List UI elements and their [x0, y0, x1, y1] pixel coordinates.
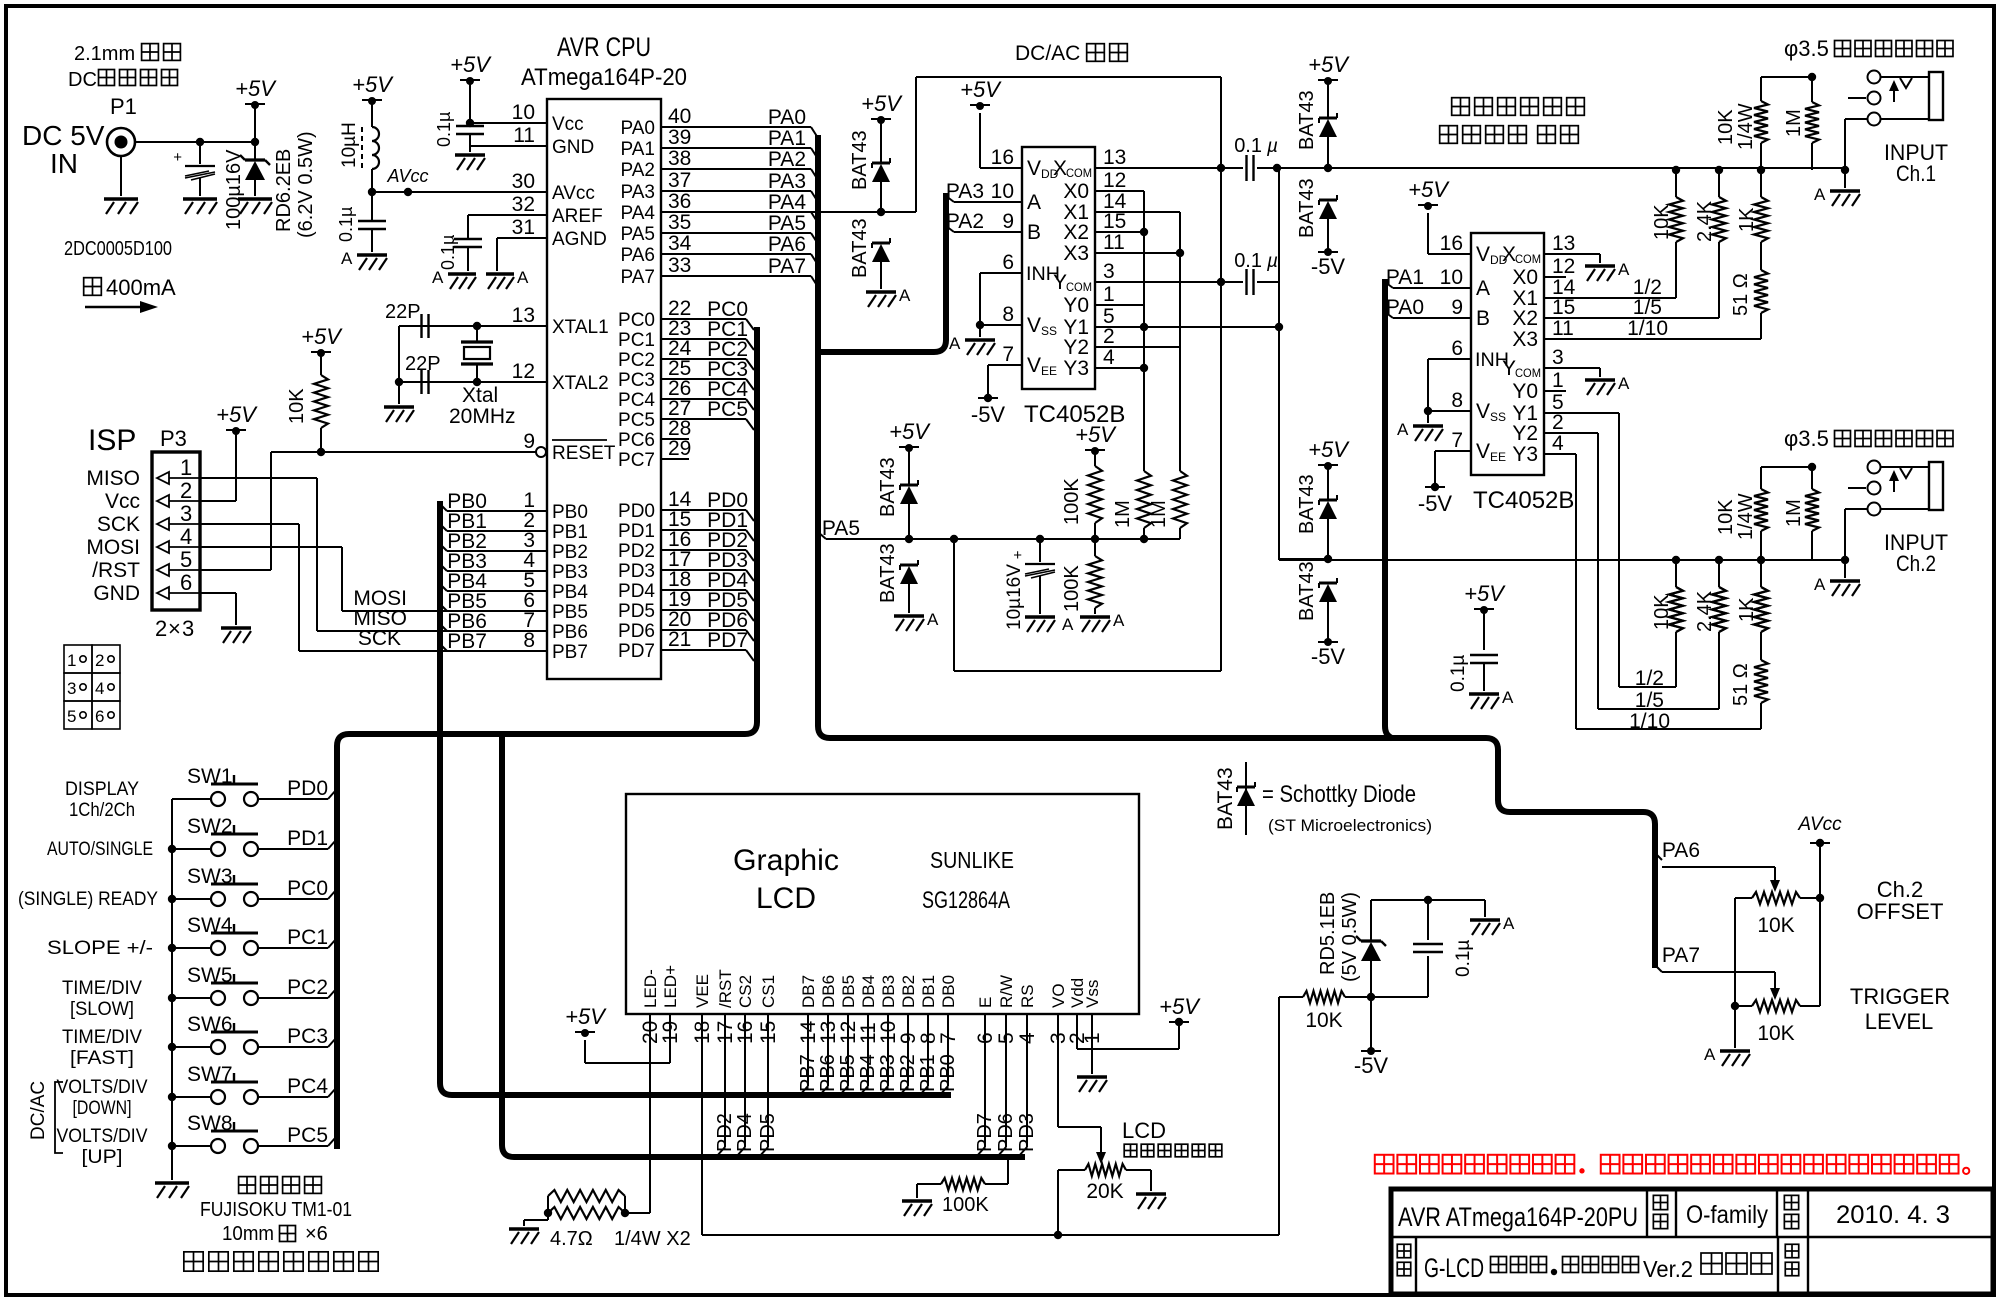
svg-text:0.1: 0.1 [1234, 250, 1262, 272]
svg-text:Vcc: Vcc [552, 114, 584, 135]
svg-text:DB4: DB4 [859, 975, 878, 1008]
svg-text:PC2: PC2 [618, 350, 655, 371]
svg-text:1M: 1M [1112, 500, 1134, 528]
svg-text:BAT43: BAT43 [849, 218, 871, 278]
svg-text:/RST: /RST [92, 559, 140, 582]
svg-text:10: 10 [1440, 266, 1463, 289]
svg-text:+5V: +5V [235, 76, 277, 101]
svg-text:13: 13 [1103, 146, 1126, 169]
svg-text:PC3: PC3 [287, 1025, 328, 1048]
svg-text:2DC0005D100: 2DC0005D100 [64, 238, 172, 260]
svg-text:+: + [1013, 547, 1022, 564]
svg-text:Y0: Y0 [1512, 380, 1538, 403]
svg-text:COM: COM [1066, 166, 1092, 180]
svg-text:TRIGGER: TRIGGER [1850, 984, 1950, 1009]
svg-text:A: A [517, 268, 529, 287]
svg-text:A: A [341, 249, 353, 268]
svg-text:X3: X3 [1512, 328, 1538, 351]
svg-text:X0: X0 [1063, 180, 1089, 203]
svg-text:PD0: PD0 [287, 777, 328, 800]
svg-text:MOSI: MOSI [353, 587, 407, 610]
svg-text:10mm: 10mm [222, 1223, 274, 1245]
svg-text:LED+: LED+ [661, 965, 680, 1008]
svg-text:-5V: -5V [1311, 644, 1346, 669]
svg-text:X2: X2 [1512, 307, 1538, 330]
svg-text:21: 21 [668, 628, 691, 651]
svg-text:PD6: PD6 [995, 1113, 1017, 1152]
svg-text:PA3: PA3 [620, 182, 655, 203]
svg-text:10K: 10K [1651, 204, 1673, 240]
svg-text:Vcc: Vcc [105, 490, 140, 513]
svg-text:V: V [1027, 314, 1041, 337]
svg-text:Y2: Y2 [1063, 336, 1089, 359]
svg-text:RS: RS [1018, 984, 1037, 1008]
svg-text:DC 5V: DC 5V [22, 120, 105, 151]
svg-text:GND: GND [93, 582, 140, 605]
svg-text:29: 29 [668, 437, 691, 460]
svg-text:DB3: DB3 [879, 975, 898, 1008]
svg-text:AVcc: AVcc [386, 166, 428, 186]
svg-text:2: 2 [95, 651, 104, 670]
svg-text:PA3: PA3 [946, 180, 984, 203]
svg-text:TIME/DIV: TIME/DIV [62, 978, 142, 999]
svg-text:6: 6 [1002, 251, 1014, 274]
svg-text:DC: DC [68, 69, 97, 91]
svg-text:PA2: PA2 [768, 148, 806, 171]
svg-text:PA5: PA5 [822, 517, 860, 540]
svg-text:13: 13 [512, 304, 535, 327]
svg-text:µ: µ [1266, 251, 1278, 272]
svg-text:V: V [1476, 400, 1490, 423]
svg-text:A: A [1062, 615, 1074, 634]
svg-text:(SINGLE) READY: (SINGLE) READY [18, 889, 158, 910]
svg-text:DB6: DB6 [819, 975, 838, 1008]
svg-text:COM: COM [1515, 366, 1541, 380]
svg-text:µ: µ [1266, 136, 1278, 157]
svg-text:22P: 22P [405, 353, 441, 375]
svg-text:6: 6 [180, 570, 192, 595]
svg-text:(6.2V 0.5W): (6.2V 0.5W) [295, 131, 317, 238]
svg-text:TC4052B: TC4052B [1473, 487, 1574, 514]
svg-text:TIME/DIV: TIME/DIV [62, 1027, 142, 1048]
svg-text:3: 3 [1552, 346, 1564, 369]
svg-text:10µH: 10µH [339, 122, 360, 168]
svg-text:DB2: DB2 [899, 975, 918, 1008]
svg-text:+5V: +5V [565, 1004, 607, 1029]
svg-text:+5V: +5V [1464, 581, 1506, 606]
svg-text:PB4: PB4 [552, 582, 588, 603]
svg-text:PD0: PD0 [618, 501, 655, 522]
svg-text:30: 30 [512, 170, 535, 193]
svg-text:PB2: PB2 [552, 542, 588, 563]
svg-text:PA2: PA2 [620, 160, 655, 181]
svg-text:4: 4 [1552, 432, 1564, 455]
svg-text:1/2: 1/2 [1635, 667, 1664, 690]
svg-text:2: 2 [180, 478, 192, 503]
svg-text:5: 5 [67, 707, 76, 726]
svg-text:12: 12 [1552, 255, 1575, 278]
svg-text:3: 3 [67, 679, 76, 698]
svg-text:φ3.5: φ3.5 [1784, 36, 1829, 61]
svg-text:+5V: +5V [450, 52, 492, 77]
svg-text:P1: P1 [110, 94, 137, 119]
svg-text:3: 3 [1103, 260, 1115, 283]
svg-text:PD1: PD1 [618, 521, 655, 542]
svg-text:BAT43: BAT43 [1214, 767, 1237, 830]
svg-text:AVR CPU: AVR CPU [557, 32, 651, 62]
svg-text:+5V: +5V [1159, 994, 1201, 1019]
svg-text:-5V: -5V [1311, 254, 1346, 279]
svg-text:PA6: PA6 [620, 245, 655, 266]
svg-text:A: A [1618, 374, 1630, 393]
svg-text:1/5: 1/5 [1635, 689, 1664, 712]
svg-text:10K: 10K [1757, 1022, 1794, 1045]
svg-text:PC5: PC5 [707, 398, 748, 421]
svg-text:AVcc: AVcc [1797, 814, 1842, 835]
svg-text:SS: SS [1490, 410, 1506, 424]
svg-text:PD3: PD3 [1016, 1113, 1038, 1152]
svg-text:SCK: SCK [358, 627, 401, 650]
svg-text:O-family: O-family [1686, 1201, 1768, 1229]
svg-text:32: 32 [512, 193, 535, 216]
svg-text:8: 8 [1002, 303, 1014, 326]
svg-text:A: A [899, 286, 911, 305]
svg-text:ATmega164P-20: ATmega164P-20 [521, 64, 687, 91]
svg-text:PC5: PC5 [618, 410, 655, 431]
svg-text:PA4: PA4 [620, 203, 655, 224]
svg-text:BAT43: BAT43 [1296, 561, 1318, 621]
svg-text:2: 2 [1103, 325, 1115, 348]
svg-text:DC/AC: DC/AC [1015, 42, 1080, 65]
svg-text:0.1µ: 0.1µ [434, 112, 454, 147]
svg-text:100µ16V: 100µ16V [223, 149, 245, 230]
svg-text:3: 3 [182, 616, 194, 641]
svg-text:IN: IN [50, 148, 78, 179]
svg-text:1: 1 [67, 651, 76, 670]
svg-text:PC3: PC3 [618, 370, 655, 391]
svg-text:RESET: RESET [552, 443, 616, 464]
svg-text:MISO: MISO [86, 467, 140, 490]
svg-text:E: E [976, 997, 995, 1008]
svg-text:(5V 0.5W): (5V 0.5W) [1339, 892, 1361, 982]
svg-text:+5V: +5V [1408, 177, 1450, 202]
svg-text:SG12864A: SG12864A [922, 887, 1010, 914]
svg-text:6: 6 [95, 707, 104, 726]
svg-text:[DOWN]: [DOWN] [73, 1098, 132, 1119]
svg-text:PD7: PD7 [618, 641, 655, 662]
svg-text:PA1: PA1 [620, 139, 655, 160]
svg-text:Xtal: Xtal [462, 384, 498, 407]
svg-text:11: 11 [1103, 231, 1125, 254]
svg-text:10: 10 [512, 101, 535, 124]
svg-text:39: 39 [668, 126, 691, 149]
svg-text:A: A [1113, 611, 1125, 630]
svg-text:PC4: PC4 [618, 390, 655, 411]
svg-text:Y: Y [1053, 271, 1067, 294]
svg-text:COM: COM [1066, 280, 1092, 294]
svg-text:BAT43: BAT43 [877, 543, 899, 603]
svg-text:12: 12 [512, 360, 535, 383]
svg-text:A: A [1704, 1045, 1716, 1064]
svg-text:PC4: PC4 [287, 1075, 328, 1098]
svg-text:+5V: +5V [960, 77, 1002, 102]
svg-text:AUTO/SINGLE: AUTO/SINGLE [47, 839, 153, 860]
svg-text:/RST: /RST [716, 969, 735, 1008]
svg-text:PC0: PC0 [618, 310, 655, 331]
svg-text:10K: 10K [1715, 109, 1737, 145]
svg-text:+5V: +5V [1308, 437, 1350, 462]
svg-text:EE: EE [1490, 450, 1506, 464]
svg-text:0.1µ: 0.1µ [1448, 655, 1469, 692]
svg-text:A: A [1476, 277, 1490, 300]
svg-text:10: 10 [991, 180, 1014, 203]
svg-text:V: V [1027, 354, 1041, 377]
svg-text:RD6.2EB: RD6.2EB [273, 149, 295, 232]
svg-text:CS2: CS2 [736, 975, 755, 1008]
svg-text:4: 4 [1103, 346, 1115, 369]
svg-text:Ch.2: Ch.2 [1896, 551, 1936, 576]
svg-text:10K: 10K [1757, 914, 1794, 937]
svg-text:33: 33 [668, 254, 691, 277]
svg-text:10µ16V: 10µ16V [1004, 564, 1025, 630]
svg-text:PB5: PB5 [837, 1054, 859, 1092]
svg-text:4: 4 [180, 524, 192, 549]
svg-text:1/5: 1/5 [1633, 296, 1662, 319]
svg-text:1/10: 1/10 [1629, 710, 1670, 733]
svg-text:PC6: PC6 [618, 430, 655, 451]
svg-text:4: 4 [95, 679, 104, 698]
svg-text:DB5: DB5 [839, 975, 858, 1008]
svg-text:Y0: Y0 [1063, 294, 1089, 317]
svg-text:31: 31 [512, 216, 535, 239]
svg-text:BAT43: BAT43 [1296, 178, 1318, 238]
svg-text:X: X [1502, 243, 1516, 266]
svg-text:1M: 1M [1783, 499, 1805, 527]
svg-text:100K: 100K [1061, 565, 1083, 612]
svg-text:2.1mm: 2.1mm [74, 43, 135, 65]
svg-text:1/4W: 1/4W [1735, 493, 1757, 540]
svg-text:COM: COM [1515, 252, 1541, 266]
svg-text:MOSI: MOSI [86, 536, 140, 559]
svg-text:Y3: Y3 [1063, 357, 1089, 380]
svg-text:A: A [1814, 575, 1826, 594]
svg-text:= Schottky Diode: = Schottky Diode [1262, 781, 1416, 808]
svg-text:1M: 1M [1148, 500, 1170, 528]
svg-text:R/W: R/W [997, 975, 1016, 1008]
svg-text:A: A [1502, 688, 1514, 707]
svg-text:EE: EE [1041, 364, 1057, 378]
svg-text:+5V: +5V [352, 72, 394, 97]
svg-text:AGND: AGND [552, 229, 607, 250]
svg-text:PC1: PC1 [287, 926, 328, 949]
svg-text:2: 2 [1552, 411, 1564, 434]
svg-text:VOLTS/DIV: VOLTS/DIV [57, 1077, 148, 1098]
svg-text:SCK: SCK [97, 513, 140, 536]
svg-text:G-LCD: G-LCD [1424, 1253, 1484, 1283]
svg-text:7: 7 [1451, 429, 1463, 452]
svg-text:PB5: PB5 [552, 602, 588, 623]
svg-text:GND: GND [552, 137, 594, 158]
svg-text:[FAST]: [FAST] [70, 1048, 134, 1069]
svg-text:BAT43: BAT43 [877, 457, 899, 517]
svg-text:PC1: PC1 [618, 330, 655, 351]
svg-text:11: 11 [513, 124, 535, 147]
svg-text:PA7: PA7 [768, 255, 806, 278]
svg-text:PD4: PD4 [618, 581, 655, 602]
svg-text:40: 40 [668, 105, 691, 128]
svg-text:37: 37 [668, 169, 691, 192]
svg-text:PB7: PB7 [552, 642, 588, 663]
svg-text:PD5: PD5 [757, 1113, 779, 1152]
svg-text:PD3: PD3 [618, 561, 655, 582]
svg-text:XTAL1: XTAL1 [552, 317, 609, 338]
svg-text:Y2: Y2 [1512, 422, 1538, 445]
svg-text:BAT43: BAT43 [849, 130, 871, 190]
svg-text:20MHz: 20MHz [449, 405, 516, 428]
svg-text:V: V [1476, 243, 1490, 266]
svg-text:PD5: PD5 [618, 601, 655, 622]
svg-text:PD2: PD2 [618, 541, 655, 562]
svg-text:PB7: PB7 [447, 630, 487, 653]
svg-text:[SLOW]: [SLOW] [70, 999, 134, 1020]
svg-text:LCD: LCD [756, 882, 816, 915]
svg-text:PC2: PC2 [287, 976, 328, 999]
svg-text:10K: 10K [1305, 1009, 1342, 1032]
svg-text:AVcc: AVcc [552, 183, 595, 204]
svg-text:PA0: PA0 [620, 118, 655, 139]
svg-text:16: 16 [991, 146, 1014, 169]
svg-text:34: 34 [668, 232, 692, 255]
svg-text:+5V: +5V [216, 402, 258, 427]
svg-text:RD5.1EB: RD5.1EB [1317, 892, 1339, 975]
svg-text:22P: 22P [385, 301, 421, 323]
svg-text:PB7: PB7 [797, 1054, 819, 1092]
svg-text:PC7: PC7 [618, 450, 655, 471]
svg-text:PA5: PA5 [620, 224, 655, 245]
svg-text:DISPLAY: DISPLAY [65, 779, 139, 800]
svg-text:PA1: PA1 [768, 127, 806, 150]
svg-text:PB0: PB0 [937, 1054, 959, 1092]
svg-text:PA2: PA2 [946, 210, 984, 233]
svg-text:×6: ×6 [305, 1223, 328, 1245]
svg-text:PD4: PD4 [734, 1113, 756, 1152]
svg-text:Y3: Y3 [1512, 443, 1538, 466]
svg-text:12: 12 [1103, 169, 1126, 192]
svg-text:9: 9 [1002, 210, 1014, 233]
svg-text:AREF: AREF [552, 206, 603, 227]
svg-text:V: V [1027, 157, 1041, 180]
svg-text:DC/AC: DC/AC [28, 1081, 49, 1140]
svg-text:+: + [173, 149, 182, 166]
svg-text:PA6: PA6 [768, 233, 806, 256]
svg-text:1K: 1K [1736, 207, 1758, 232]
svg-text:100K: 100K [1061, 478, 1083, 525]
svg-text:1/4W X2: 1/4W X2 [614, 1228, 691, 1250]
svg-text:DB1: DB1 [919, 975, 938, 1008]
svg-text:CS1: CS1 [759, 975, 778, 1008]
svg-text:BAT43: BAT43 [1296, 90, 1318, 150]
svg-text:0.1µ: 0.1µ [438, 235, 458, 270]
svg-text:VO: VO [1049, 983, 1068, 1008]
svg-text:+5V: +5V [889, 419, 931, 444]
svg-text:1Ch/2Ch: 1Ch/2Ch [69, 800, 135, 821]
svg-text:OFFSET: OFFSET [1857, 899, 1944, 924]
svg-text:PA6: PA6 [1662, 839, 1700, 862]
svg-text:A: A [1503, 914, 1515, 933]
svg-text:SLOPE +/-: SLOPE +/- [47, 938, 153, 959]
svg-text:PA5: PA5 [768, 212, 806, 235]
svg-text:V: V [1476, 440, 1490, 463]
svg-text:VEE: VEE [693, 974, 712, 1008]
svg-text:PA3: PA3 [768, 170, 806, 193]
svg-text:-5V: -5V [971, 402, 1006, 427]
svg-text:0.1µ: 0.1µ [1453, 940, 1474, 977]
svg-text:×: × [168, 616, 181, 641]
svg-text:Graphic: Graphic [733, 844, 839, 877]
svg-text:A: A [1814, 185, 1826, 204]
svg-text:2010. 4. 3: 2010. 4. 3 [1836, 1201, 1950, 1229]
svg-text:PD6: PD6 [618, 621, 655, 642]
svg-text:PB4: PB4 [857, 1054, 879, 1092]
svg-text:X2: X2 [1063, 221, 1089, 244]
svg-text:13: 13 [1552, 232, 1575, 255]
svg-text:-5V: -5V [1418, 491, 1453, 516]
svg-text:9: 9 [523, 430, 535, 453]
svg-text:PA0: PA0 [1386, 296, 1424, 319]
svg-text:LCD: LCD [1122, 1118, 1166, 1143]
svg-text:1/10: 1/10 [1627, 317, 1668, 340]
svg-text:P3: P3 [160, 426, 187, 451]
svg-text:Ch.1: Ch.1 [1896, 161, 1936, 186]
svg-text:PB0: PB0 [552, 502, 588, 523]
svg-text:4.7Ω: 4.7Ω [550, 1228, 593, 1250]
svg-text:FUJISOKU TM1-01: FUJISOKU TM1-01 [200, 1199, 352, 1221]
svg-text:Vss: Vss [1083, 980, 1102, 1008]
svg-text:8: 8 [523, 629, 535, 652]
svg-text:(ST Microelectronics): (ST Microelectronics) [1268, 816, 1432, 835]
svg-text:1: 1 [1552, 369, 1564, 392]
svg-text:20K: 20K [1086, 1180, 1123, 1203]
svg-text:1/4W: 1/4W [1735, 103, 1757, 150]
svg-text:AVR ATmega164P-20PU: AVR ATmega164P-20PU [1398, 1202, 1638, 1232]
svg-text:φ3.5: φ3.5 [1784, 426, 1829, 451]
svg-text:6: 6 [1451, 337, 1463, 360]
svg-text:+5V: +5V [301, 324, 343, 349]
svg-text:A: A [1397, 420, 1409, 439]
svg-text:PA0: PA0 [768, 106, 806, 129]
svg-text:A: A [927, 610, 939, 629]
svg-text:PA7: PA7 [1662, 944, 1700, 967]
svg-text:5: 5 [180, 547, 192, 572]
svg-text:+5V: +5V [1308, 52, 1350, 77]
svg-text:B: B [1476, 307, 1490, 330]
svg-text:3: 3 [180, 501, 192, 526]
svg-text:11: 11 [1552, 317, 1574, 340]
svg-text:PA4: PA4 [768, 191, 806, 214]
svg-text:Ver.2: Ver.2 [1643, 1256, 1693, 1282]
svg-text:PD2: PD2 [714, 1113, 736, 1152]
svg-text:X3: X3 [1063, 242, 1089, 265]
svg-text:+5V: +5V [861, 91, 903, 116]
svg-text:16: 16 [1440, 232, 1463, 255]
svg-text:PB6: PB6 [817, 1054, 839, 1092]
svg-text:VOLTS/DIV: VOLTS/DIV [57, 1126, 148, 1147]
svg-text:PB6: PB6 [552, 622, 588, 643]
svg-text:A: A [949, 334, 961, 353]
svg-text:38: 38 [668, 147, 691, 170]
svg-text:X0: X0 [1512, 266, 1538, 289]
svg-text:LED-: LED- [641, 969, 660, 1008]
